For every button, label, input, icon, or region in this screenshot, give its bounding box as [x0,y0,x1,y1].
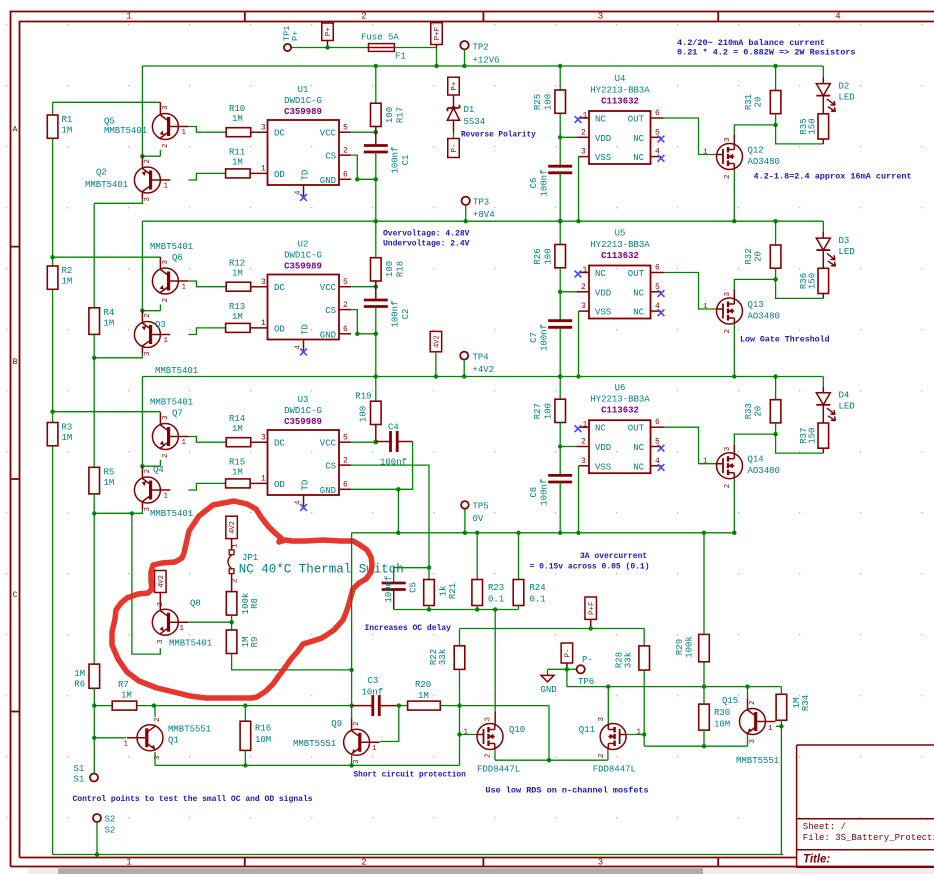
IC U1 DW01C-G [268,120,340,185]
svg-text:C8: C8 [529,487,539,498]
wire R8 to R9 [231,615,233,630]
svg-text:Use low RDS on n-channel mosfe: Use low RDS on n-channel mosfets [485,786,648,796]
svg-text:1: 1 [583,112,588,121]
svg-text:S1: S1 [74,775,85,785]
svg-text:C4: C4 [388,423,399,433]
wire U1 CS jog [339,154,351,156]
svg-text:1M: 1M [74,669,85,679]
svg-text:R20: R20 [415,680,431,690]
svg-text:6: 6 [343,481,348,490]
svg-text:VSS: VSS [595,308,611,318]
svg-text:1: 1 [182,129,187,137]
svg-text:Q14: Q14 [748,455,764,465]
capacitor C8 100nf [548,474,572,477]
svg-text:P+: P+ [451,81,459,91]
svg-text:MMBT5551: MMBT5551 [293,739,336,749]
fuse F1 [369,44,395,52]
svg-text:1M: 1M [418,691,429,701]
svg-text:NC: NC [595,269,606,279]
svg-text:3: 3 [162,415,170,420]
svg-text:3: 3 [162,105,170,110]
wire rail riser row 1 [141,66,143,156]
resistor R4 1M [89,308,100,335]
title block [797,745,934,874]
svg-text:150: 150 [808,273,818,289]
svg-text:10M: 10M [255,735,271,745]
svg-text:HY2213-BB3A: HY2213-BB3A [590,395,650,405]
wire U3 VCC [339,441,351,443]
svg-text:R15: R15 [229,458,245,468]
svg-text:R8: R8 [250,598,260,609]
svg-text:1: 1 [164,493,169,501]
resistor R22 33k [459,629,461,646]
wire Q6 base to R12 [188,281,226,287]
resistor R24 0.1 [518,533,520,580]
svg-text:R25: R25 [533,94,543,110]
svg-text:1: 1 [703,303,708,311]
svg-text:6: 6 [655,418,660,427]
resistor R25 100 [559,66,561,90]
svg-text:OUT: OUT [628,115,645,125]
svg-text:U1: U1 [298,85,309,95]
svg-text:2: 2 [162,453,170,458]
wire LED return step [776,279,824,298]
svg-text:VCC: VCC [320,439,337,449]
resistor R19 100 [375,377,377,402]
scrollbar [28,868,934,874]
svg-text:R24: R24 [530,583,546,593]
svg-text:Q2: Q2 [96,168,107,178]
svg-text:4V2: 4V2 [158,575,166,588]
svg-text:C3: C3 [368,676,379,686]
resistor R16 10M [244,706,246,722]
power P+ [322,23,334,41]
svg-text:100nf: 100nf [384,575,394,602]
wire Q11 source [607,750,609,761]
resistor R23 0.1 [476,533,478,580]
wire 8V4 rail [142,220,823,222]
resistor R5 1M [89,467,100,494]
testpoint TP4 +4V2 [460,352,468,360]
svg-text:VDD: VDD [595,134,611,144]
svg-text:100nf: 100nf [540,479,550,506]
wire U2 VCC [339,286,351,288]
svg-text:2: 2 [581,438,586,447]
diode D1 5S34 [448,105,460,111]
svg-text:20: 20 [754,251,764,262]
svg-text:U2: U2 [298,240,309,250]
svg-text:3: 3 [724,292,732,297]
freehand red annotation loop [112,501,372,698]
wire R28 bottom [643,670,645,746]
svg-text:U3: U3 [298,395,309,405]
capacitor C1 100nf [364,144,388,147]
pin 5 no-connect U6 [651,446,662,448]
svg-text:Q6: Q6 [172,253,183,263]
svg-text:OD: OD [274,170,285,180]
svg-text:OUT: OUT [628,424,645,434]
wire D1 to P- [453,132,455,139]
svg-text:6: 6 [655,109,660,118]
svg-text:R2: R2 [62,266,73,276]
svg-text:R27: R27 [533,403,543,419]
svg-text:D1: D1 [464,105,475,115]
power P- D1 [448,139,460,158]
transistor Q15 MMBT5551 [747,687,749,699]
svg-text:6: 6 [655,264,660,273]
svg-text:P+F: P+F [434,27,442,41]
svg-text:A: A [13,126,18,135]
svg-text:1: 1 [180,625,185,633]
power P- bottom [561,643,573,663]
transistor Q8 MMBT5401 [159,601,161,609]
IC U4 HY2213-BB3A [589,111,651,164]
pin TD no-connect U3 [303,495,305,506]
svg-text:3: 3 [162,260,170,265]
capacitor C3 10nf [352,705,373,707]
LED D4 [822,377,824,387]
svg-text:C113632: C113632 [601,406,639,416]
svg-text:Q15: Q15 [722,696,738,706]
svg-text:MMBT5401: MMBT5401 [155,366,198,376]
svg-text:C359989: C359989 [284,107,322,117]
wire U1 GND [339,178,351,180]
svg-text:C113632: C113632 [601,251,639,261]
svg-text:Short circuit protection: Short circuit protection [354,772,467,780]
svg-text:10M: 10M [714,720,730,730]
svg-text:6: 6 [343,171,348,180]
wire emitter rail [155,764,460,766]
svg-text:2: 2 [162,143,170,148]
svg-text:TD: TD [301,480,311,491]
wire Q2 collector column [93,203,95,307]
wire R22 bottom to OD net [459,669,461,765]
resistor R3 1M [52,412,54,423]
svg-text:+12V6: +12V6 [473,56,500,66]
svg-text:3: 3 [144,351,152,356]
svg-text:P+: P+ [325,27,333,37]
resistor R13 1M [226,323,251,332]
wire VSS riser U4 [578,157,580,222]
svg-text:R18: R18 [396,261,406,277]
svg-text:HY2213-BB3A: HY2213-BB3A [590,240,650,250]
svg-text:Low Gate Threshold: Low Gate Threshold [740,335,830,345]
wire Q1 base [93,706,95,738]
svg-text:MMBT5401: MMBT5401 [150,242,193,252]
wire Q3 collector to divider [141,348,143,354]
svg-text:4.2/20~ 210mA balance current: 4.2/20~ 210mA balance current [677,38,825,48]
svg-text:1M: 1M [62,277,73,287]
wire Q2 base to R11 [188,173,225,180]
svg-text:R26: R26 [533,248,543,264]
svg-text:Q12: Q12 [748,146,764,156]
svg-text:1: 1 [126,857,131,867]
svg-text:GND: GND [320,486,336,496]
svg-text:1: 1 [261,475,266,484]
wire 0V riser [351,533,353,719]
testpoint TP3 +8V4 [462,197,470,205]
svg-text:R29: R29 [675,639,685,655]
svg-text:S2: S2 [105,815,116,825]
svg-text:P-: P- [582,655,593,665]
wire gate line Q11 [627,734,644,736]
svg-text:GND: GND [541,685,557,695]
pin 3 VSS U5 [579,310,590,312]
resistor R9 1M [226,630,237,654]
svg-text:2: 2 [724,329,732,334]
svg-text:1: 1 [261,319,266,328]
svg-text:0.1: 0.1 [488,595,504,605]
wire VSS riser U5 [578,311,580,376]
wire Q8 base [188,621,231,623]
power 4V2 JP1 [226,516,238,538]
svg-text:Title:: Title: [803,854,830,866]
pin 6 OUT U5 [651,272,664,274]
svg-text:R16: R16 [255,724,271,734]
wire Q10 source [494,750,496,761]
svg-text:1: 1 [182,439,187,447]
svg-text:CS: CS [325,462,336,472]
svg-text:GND: GND [320,176,336,186]
wire P- net line [567,686,782,688]
wire R1 bottom to R2 [52,138,54,257]
svg-text:2: 2 [361,12,366,22]
svg-text:4V2: 4V2 [434,335,442,348]
transistor Q9 MMBT5551 [351,718,353,729]
wire rail riser row 3 [141,377,143,467]
wire Q8 emitter [132,513,160,654]
svg-text:FDD8447L: FDD8447L [593,765,636,775]
svg-text:Reverse Polarity: Reverse Polarity [461,132,536,140]
wire Q4 collector jog [130,511,134,515]
svg-text:150: 150 [808,428,818,444]
wire bottom OD bus [94,705,351,707]
svg-text:TP6: TP6 [578,677,594,687]
testpoint TP1 [291,47,369,49]
resistor R2 1M [52,257,54,266]
svg-text:3: 3 [581,302,586,311]
svg-text:P+F: P+F [588,601,596,615]
IC U2 DW01C-G [268,275,340,340]
pin 4 no-connect U6 [651,465,662,467]
svg-text:3: 3 [724,137,732,142]
svg-text:P-: P- [451,143,459,152]
wire C5 node [394,609,519,611]
svg-text:3: 3 [353,759,361,764]
wire Q6 emitter jog [159,304,161,310]
svg-text:1: 1 [463,729,468,737]
transistor Q3 MMBT5401 [141,311,143,322]
wire Q7 emitter jog [159,460,161,466]
svg-text:1: 1 [261,165,266,174]
svg-text:100nf: 100nf [391,300,401,327]
wire rail riser row 2 [141,221,143,311]
svg-text:NC: NC [633,443,644,453]
svg-text:DWD1C-G: DWD1C-G [284,406,322,416]
svg-text:1M: 1M [232,468,243,478]
svg-text:MMBT5551: MMBT5551 [736,756,779,766]
power 4V2 Q8 [155,571,167,593]
wire R28 to R30 to Q15 [644,745,747,747]
svg-text:R19: R19 [355,392,371,402]
svg-text:NC 40*C Thermal Switch: NC 40*C Thermal Switch [239,563,404,577]
svg-text:2: 2 [162,298,170,303]
svg-text:TD: TD [301,324,311,335]
svg-text:2: 2 [157,602,165,607]
svg-text:1: 1 [637,729,642,737]
wire P+F line [460,628,645,630]
svg-text:0.21 * 4.2 = 0.882W => 2W Resi: 0.21 * 4.2 = 0.882W => 2W Resistors [677,48,856,58]
wire Q15 base R34 [776,725,781,727]
svg-text:Fuse 5A: Fuse 5A [361,33,399,43]
svg-text:TD: TD [301,170,311,181]
svg-text:1M: 1M [62,126,73,136]
resistor R12 1M [226,282,251,291]
resistor R37 150 [818,423,829,448]
pin 1 U4 no-connect [579,117,590,119]
svg-text:1: 1 [583,421,588,430]
svg-text:NC: NC [633,288,644,298]
mosfet Q10 FDD8447L [477,724,503,750]
pin 1 U6 no-connect [579,426,590,428]
svg-text:CS: CS [325,306,336,316]
svg-text:R32: R32 [744,248,754,264]
transistor Q2 MMBT5401 [141,156,143,167]
svg-text:1: 1 [182,284,187,292]
svg-text:2: 2 [144,159,152,164]
transistor Q1 MMBT5551 [137,725,163,751]
svg-text:MMBT5401: MMBT5401 [169,639,212,649]
svg-text:AO3480: AO3480 [748,466,780,476]
svg-text:Q10: Q10 [509,725,525,735]
pin 3 VSS U4 [579,156,590,158]
svg-text:2: 2 [232,578,240,583]
wire TP6 node down [566,669,568,686]
svg-text:100nf: 100nf [391,146,401,173]
wire long drain drop [494,610,496,712]
svg-text:2: 2 [724,484,732,489]
svg-text:D2: D2 [839,82,850,92]
svg-text:NC: NC [633,153,644,163]
wire U3 CS to R21 [351,465,429,579]
svg-text:R17: R17 [396,107,406,123]
svg-text:2: 2 [343,301,348,310]
svg-text:3: 3 [261,278,266,287]
svg-text:100k: 100k [685,636,695,658]
wire U3 GND [339,488,351,490]
pin TD no-connect U2 [303,340,305,351]
mosfet Q11 FDD8447L [600,724,626,750]
svg-text:D3: D3 [839,236,850,246]
resistor R20 1M [399,705,408,707]
svg-text:1: 1 [123,741,128,749]
svg-text:2: 2 [361,857,366,867]
svg-text:1: 1 [372,745,377,753]
svg-text:2: 2 [343,147,348,156]
IC U6 HY2213-BB3A [589,420,651,473]
svg-text:C1: C1 [401,155,411,166]
svg-text:DC: DC [274,439,285,449]
svg-text:R10: R10 [229,104,245,114]
wire C4 to GND net [398,442,412,490]
svg-text:Q5: Q5 [104,117,115,127]
resistor R6 1M [89,664,100,688]
wire R4 to R5 [93,334,95,467]
svg-text:Undervoltage: 2.4V: Undervoltage: 2.4V [383,240,470,249]
resistor R26 100 [559,221,561,244]
wire Q2 collector to divider [141,193,143,199]
svg-text:AO3480: AO3480 [748,157,780,167]
wire Q12 drain node [733,135,735,144]
svg-text:C7: C7 [529,332,539,343]
wire R5 to R6 [93,494,95,664]
svg-text:MMBT5551: MMBT5551 [168,725,211,735]
wire R9 bottom to 0V riser [232,654,352,670]
svg-text:= 0.15v across 0.05 (0.1): = 0.15v across 0.05 (0.1) [530,563,650,572]
wire OUT to Q13 gate [664,273,717,310]
svg-text:3A overcurrent: 3A overcurrent [580,552,647,561]
svg-text:C2: C2 [401,309,411,320]
svg-text:1: 1 [703,149,708,157]
svg-text:100: 100 [544,248,554,264]
svg-text:DC: DC [274,129,285,139]
svg-text:HY2213-BB3A: HY2213-BB3A [590,86,650,96]
svg-text:+4V2: +4V2 [473,365,495,375]
svg-text:P-: P- [565,648,573,657]
svg-text:R30: R30 [714,708,730,718]
wire R2 bottom to R3 [52,289,54,411]
svg-text:3: 3 [724,446,732,451]
transistor Q4 MMBT5401 [141,466,143,477]
svg-text:2: 2 [581,283,586,292]
svg-text:1M: 1M [232,114,243,124]
svg-text:100nf: 100nf [540,169,550,196]
svg-text:C6: C6 [529,178,539,189]
svg-text:NC: NC [595,115,606,125]
svg-text:R13: R13 [229,302,245,312]
svg-text:5: 5 [343,124,348,133]
svg-text:File: 3S_Battery_Protecti: File: 3S_Battery_Protecti [803,833,934,843]
svg-text:Control points to test the sma: Control points to test the small OC and … [73,795,313,804]
svg-text:3: 3 [598,12,603,22]
LED D2 [822,66,824,78]
svg-text:LED: LED [839,247,855,257]
resistor R10 1M [226,128,251,137]
svg-text:2: 2 [144,313,152,318]
wire source rail [495,759,608,761]
pin 5 no-connect U5 [651,291,662,293]
svg-text:FDD8447L: FDD8447L [477,765,520,775]
wire Q14 drain node [733,444,735,453]
svg-text:D4: D4 [839,391,850,401]
wire LED return step [776,125,824,144]
testpoint TP2 +12V6 [460,41,468,49]
resistor R34 1M [780,687,782,695]
jumper JP1 thermal switch [229,550,234,555]
pin 2 VDD U4 [576,136,589,138]
svg-text:1M: 1M [232,269,243,279]
svg-text:1: 1 [768,725,773,733]
svg-text:100: 100 [385,107,395,123]
svg-text:R3: R3 [62,423,73,433]
wire U3 gnd riser to 0V [397,489,399,533]
wire 4V2 rail [142,376,823,378]
wire Q1 emitter to rail [154,752,156,765]
svg-text:Q4: Q4 [153,465,164,475]
svg-text:3: 3 [598,857,603,867]
svg-text:VCC: VCC [320,283,337,293]
resistor R36 150 [818,268,829,293]
